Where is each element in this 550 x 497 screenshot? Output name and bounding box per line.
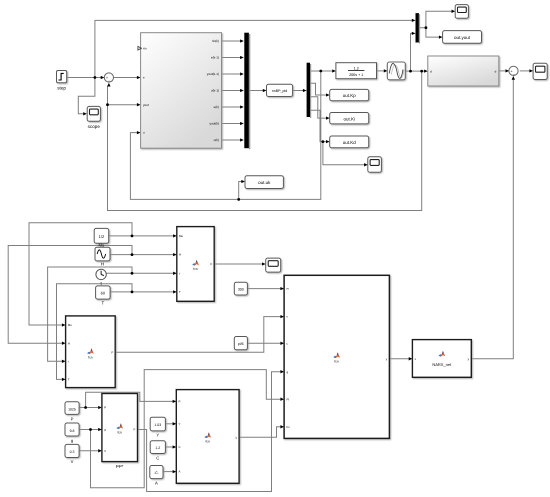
svg-text:206s + 1: 206s + 1 — [349, 73, 363, 77]
svg-text:yout(k-1): yout(k-1) — [207, 72, 219, 76]
svg-text:T: T — [102, 300, 105, 305]
svg-text:fcn: fcn — [88, 356, 93, 360]
svg-text:Ff: Ff — [287, 397, 290, 401]
svg-text:-C-: -C- — [154, 471, 160, 475]
svg-text:Fv: Fv — [287, 425, 291, 429]
svg-text:T: T — [68, 378, 70, 382]
svg-text:e(k-1): e(k-1) — [211, 56, 219, 60]
svg-text:F: F — [134, 428, 136, 432]
svg-text:P: P — [104, 406, 106, 410]
svg-text:H: H — [101, 262, 104, 267]
svg-text:rin(k): rin(k) — [212, 39, 219, 43]
svg-text:u(k): u(k) — [214, 138, 219, 142]
svg-text:V: V — [104, 449, 106, 453]
svg-text:out.Kd: out.Kd — [343, 140, 357, 145]
svg-text:A: A — [179, 470, 181, 474]
svg-text:C: C — [156, 455, 159, 460]
svg-text:P: P — [71, 416, 74, 421]
svg-text:fcn: fcn — [334, 360, 339, 364]
svg-text:rin: rin — [143, 46, 147, 50]
svg-text:out.Kp: out.Kp — [343, 93, 357, 98]
svg-text:PP*: PP* — [116, 464, 124, 469]
svg-text:T: T — [179, 290, 181, 294]
svg-text:300: 300 — [238, 288, 244, 292]
svg-text:H: H — [68, 341, 70, 345]
svg-text:1/2: 1/2 — [99, 234, 105, 239]
svg-text:Mu: Mu — [68, 323, 72, 327]
svg-text:yout: yout — [143, 103, 149, 107]
svg-text:Y: Y — [156, 432, 159, 437]
svg-text:1.03: 1.03 — [154, 423, 161, 427]
svg-text:A: A — [155, 480, 158, 485]
svg-text:60: 60 — [101, 291, 106, 296]
svg-text:F: F — [111, 350, 113, 354]
svg-text:9.8: 9.8 — [70, 429, 75, 433]
svg-text:e(k): e(k) — [214, 105, 219, 109]
svg-text:fcn: fcn — [205, 440, 210, 444]
svg-text:out.yout: out.yout — [454, 35, 471, 40]
svg-text:pi/6: pi/6 — [238, 342, 244, 346]
svg-text:nnBP_pid: nnBP_pid — [272, 89, 288, 93]
svg-text:step: step — [57, 86, 66, 91]
svg-text:1025: 1025 — [68, 407, 76, 411]
svg-text:P: P — [179, 400, 181, 404]
svg-text:H: H — [179, 253, 181, 257]
svg-text:NARX_net: NARX_net — [432, 362, 452, 367]
svg-text:out.Ki: out.Ki — [343, 116, 355, 121]
svg-text:yout(k): yout(k) — [210, 122, 219, 126]
svg-text:Mu: Mu — [179, 234, 183, 238]
svg-text:F: F — [211, 262, 213, 266]
svg-text:V: V — [71, 459, 74, 464]
svg-text:u(k-1): u(k-1) — [211, 89, 219, 93]
svg-text:fcn: fcn — [117, 431, 122, 435]
svg-text:Y: Y — [179, 422, 181, 426]
svg-text:scope: scope — [88, 124, 101, 129]
svg-text:out.uk: out.uk — [258, 180, 271, 185]
svg-text:1.2: 1.2 — [354, 67, 359, 71]
svg-text:e: e — [143, 76, 145, 80]
svg-text:g: g — [71, 438, 74, 443]
svg-text:C: C — [179, 445, 181, 449]
svg-text:0.3: 0.3 — [70, 450, 75, 454]
svg-text:1.2: 1.2 — [155, 446, 160, 450]
svg-text:u: u — [143, 131, 145, 135]
svg-text:fcn: fcn — [193, 267, 198, 271]
